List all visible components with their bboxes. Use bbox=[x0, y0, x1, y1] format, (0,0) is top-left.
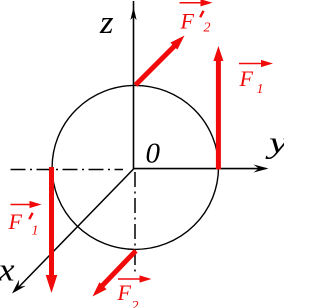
svg-text:F: F bbox=[180, 9, 195, 34]
svg-text:2: 2 bbox=[204, 21, 211, 36]
svg-text:x: x bbox=[0, 253, 15, 289]
svg-text:2: 2 bbox=[132, 299, 139, 308]
svg-text:F: F bbox=[8, 209, 23, 234]
svg-text:1: 1 bbox=[32, 224, 39, 239]
svg-text:F: F bbox=[239, 66, 254, 91]
svg-text:y: y bbox=[265, 125, 284, 160]
svg-text:0: 0 bbox=[146, 138, 161, 170]
svg-text:z: z bbox=[99, 5, 114, 41]
svg-text:1: 1 bbox=[257, 82, 264, 97]
svg-text:F: F bbox=[117, 280, 132, 305]
